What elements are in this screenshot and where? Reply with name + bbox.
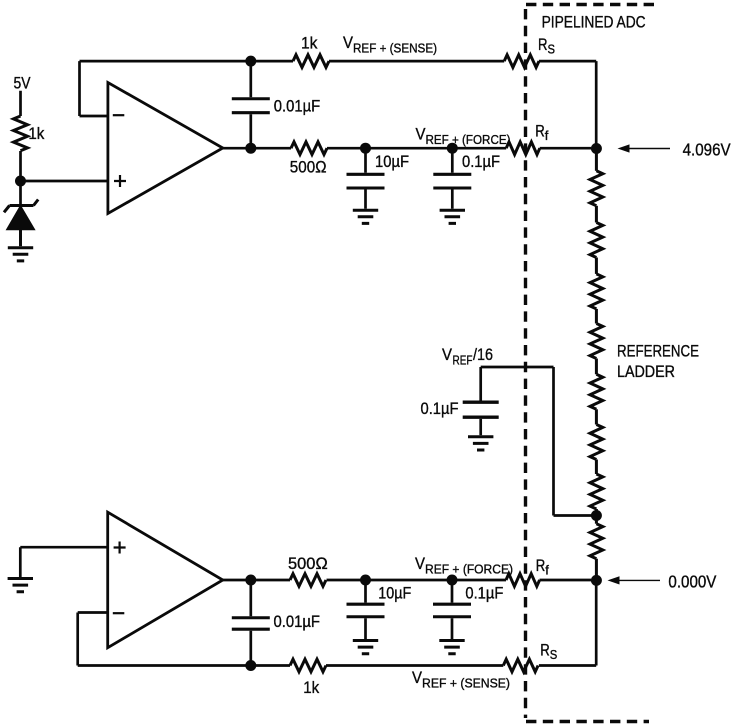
node A: zener/1k/+input junction bbox=[15, 176, 26, 187]
svg-text:V: V bbox=[442, 346, 452, 364]
capacitor 0.01uF (bottom) bbox=[232, 580, 270, 666]
wire: bottom op-amp output (VREF+ FORCE) y=580 bbox=[223, 579, 591, 582]
svg-text:Rf: Rf bbox=[535, 122, 549, 143]
svg-text:0.01µF: 0.01µF bbox=[274, 613, 321, 631]
plus label U1 bbox=[114, 175, 126, 187]
capacitor 10uF (top) bbox=[347, 148, 385, 209]
svg-text:LADDER: LADDER bbox=[617, 363, 675, 381]
svg-text:0.01µF: 0.01µF bbox=[274, 98, 321, 116]
svg-text:4.096V: 4.096V bbox=[683, 140, 731, 160]
svg-text:10µF: 10µF bbox=[378, 585, 411, 603]
capacitor 0.1uF (top) bbox=[433, 148, 471, 209]
ground (10uF top) bbox=[353, 210, 378, 223]
svg-text:VREF + (SENSE): VREF + (SENSE) bbox=[412, 669, 510, 691]
node: 0.000V reference node bbox=[591, 575, 602, 586]
svg-text:RS: RS bbox=[538, 36, 555, 57]
wire: top op-amp output (VREF+ FORCE) y=148.2 bbox=[223, 147, 591, 150]
wire: VREF/16 tap line bbox=[481, 367, 597, 516]
wire: feedback left leg (top op-amp) bbox=[80, 61, 108, 116]
plus label U2 bbox=[114, 542, 126, 554]
svg-text:VREF + (SENSE): VREF + (SENSE) bbox=[343, 34, 437, 56]
wire: 5V supply leg bbox=[19, 91, 22, 204]
svg-text:/16: /16 bbox=[473, 346, 493, 364]
svg-text:0.1µF: 0.1µF bbox=[462, 153, 500, 171]
wire: top sense line (VREF+ SENSE) y=61 bbox=[80, 61, 597, 148]
svg-text:VREF + (FORCE): VREF + (FORCE) bbox=[415, 555, 513, 577]
ground (VREF/16 cap) bbox=[468, 437, 493, 450]
svg-text:REF: REF bbox=[453, 352, 473, 367]
resistor Rf (bottom) bbox=[506, 574, 540, 587]
node: 4.096V reference node bbox=[591, 143, 602, 154]
svg-text:5V: 5V bbox=[14, 74, 31, 92]
node: 10uF tap (bottom) bbox=[360, 575, 371, 586]
capacitor 0.1uF (VREF/16) bbox=[463, 367, 499, 435]
node: VREF/16 ladder tap bbox=[591, 510, 602, 521]
resistor Rf (top) bbox=[506, 142, 540, 155]
wire: +input wire bottom op-amp bbox=[20, 547, 107, 577]
op-amp U1 (top) bbox=[108, 83, 223, 214]
capacitor 0.01uF (top) bbox=[232, 61, 270, 148]
ground (0.1uF top) bbox=[440, 210, 465, 223]
svg-text:RS: RS bbox=[540, 642, 557, 663]
svg-text:1k: 1k bbox=[28, 125, 45, 143]
resistor 500ohm (top) bbox=[291, 142, 327, 155]
node: bottom op-amp output junction bbox=[245, 575, 256, 586]
svg-text:0.1µF: 0.1µF bbox=[421, 400, 459, 418]
node: 10uF tap (top) bbox=[360, 143, 371, 154]
svg-text:500Ω: 500Ω bbox=[288, 555, 328, 573]
resistor 1k (5V leg, vertical) bbox=[14, 116, 28, 151]
svg-text:0.1µF: 0.1µF bbox=[465, 585, 503, 603]
wire: feedback left leg (bottom op-amp) bbox=[78, 613, 108, 666]
svg-text:500Ω: 500Ω bbox=[290, 159, 327, 177]
ground (0.1uF bottom) bbox=[439, 641, 464, 654]
svg-text:VREF + (FORCE): VREF + (FORCE) bbox=[416, 126, 511, 148]
svg-text:0.000V: 0.000V bbox=[668, 572, 716, 592]
resistor 1k (top feedback) bbox=[293, 55, 329, 68]
node: 0.1uF tap (top) bbox=[447, 143, 458, 154]
node: top feedback junction bbox=[245, 56, 256, 67]
svg-text:10µF: 10µF bbox=[375, 153, 409, 171]
reference ladder resistor chain bbox=[590, 149, 603, 581]
zener diode D1 bbox=[4, 200, 38, 247]
svg-text:1k: 1k bbox=[301, 34, 318, 52]
minus label U2 bbox=[113, 612, 125, 614]
node: bottom feedback junction bbox=[245, 660, 256, 671]
svg-text:PIPELINED ADC: PIPELINED ADC bbox=[542, 12, 646, 31]
arrow: 4.096V pointer bbox=[618, 144, 671, 152]
ground (bottom op-amp + input) bbox=[8, 579, 33, 592]
arrow: 0.000V pointer bbox=[608, 576, 661, 584]
ground (10uF bottom) bbox=[353, 641, 378, 654]
wire: bottom sense line y=665.5 bbox=[78, 580, 597, 665]
node: 0.1uF tap (bottom) bbox=[447, 575, 458, 586]
wire: +input wire top op-amp bbox=[21, 180, 108, 183]
svg-text:REFERENCE: REFERENCE bbox=[617, 342, 699, 360]
svg-text:Rf: Rf bbox=[536, 557, 550, 578]
svg-text:1k: 1k bbox=[303, 679, 320, 697]
minus label U1 bbox=[113, 114, 125, 116]
resistor RS (top) bbox=[504, 55, 539, 68]
resistor 1k (bottom feedback) bbox=[290, 659, 326, 672]
capacitor 10uF (bottom) bbox=[347, 580, 385, 639]
resistor 500ohm (bottom) bbox=[290, 574, 326, 587]
ADC boundary dashed box bbox=[526, 5, 657, 722]
ground (zener) bbox=[8, 248, 33, 261]
capacitor 0.1uF (bottom) bbox=[433, 580, 471, 639]
op-amp U2 (bottom) bbox=[108, 512, 223, 648]
resistor RS (bottom) bbox=[503, 659, 538, 672]
node: top op-amp output junction bbox=[245, 143, 256, 154]
